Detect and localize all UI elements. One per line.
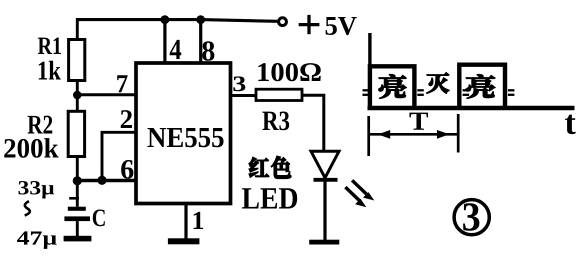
LED D1 red [311, 151, 339, 240]
wire +5V top rail [76, 20, 278, 22]
waveform voltage axis [368, 33, 371, 108]
wire pin 2 [102, 132, 136, 180]
label T [409, 113, 428, 130]
pin label 4 [170, 40, 182, 59]
label liang (lit) 1 [379, 75, 406, 99]
label LED [242, 188, 297, 208]
figure number 3 [463, 203, 479, 231]
waveform pulse 2 [459, 65, 505, 106]
label 200k [4, 138, 58, 158]
ground capacitor [64, 236, 92, 242]
dimension arrow right [437, 130, 449, 139]
label R2 [28, 116, 53, 134]
label 100 ohm [258, 63, 320, 81]
node junction pin2/pin6 [97, 176, 106, 185]
label red (se) [271, 156, 291, 178]
label mie (dark) [427, 73, 449, 94]
label 1k [39, 61, 61, 80]
resistor R2 [68, 95, 84, 181]
LED light arrow 1 [352, 180, 374, 200]
terminal +5V open circle [279, 18, 287, 26]
wire pin 7 [77, 93, 136, 96]
capacitor C electrolytic [64, 181, 90, 236]
ground LED [309, 240, 339, 245]
node pin4 on rail [161, 15, 170, 24]
node pin8 on rail [196, 15, 205, 24]
period dimension line [369, 133, 459, 136]
node junction R1/R2/pin7 [73, 91, 82, 100]
pin label 2 [121, 110, 132, 128]
label R3 [262, 111, 289, 130]
label +5V plus sign [299, 23, 320, 26]
period dimension left tick [367, 116, 370, 156]
LED light arrow 2 [345, 187, 366, 207]
label liang (lit) 2 [466, 75, 495, 99]
level dash marks [363, 90, 515, 95]
label 47u [17, 231, 57, 248]
resistor R3 [256, 89, 302, 100]
wire pin 1 [184, 204, 187, 239]
pin label 1 [194, 212, 204, 229]
label red (hong) [249, 157, 269, 177]
label 33u [18, 181, 54, 199]
period dimension right tick [457, 114, 460, 153]
waveform pulse 1 [370, 66, 415, 106]
dimension arrow left [378, 130, 390, 139]
pin label 3 [233, 76, 245, 91]
wire R3 to LED [302, 95, 324, 152]
label C [93, 209, 105, 226]
wire pin 4 [163, 20, 166, 63]
wire pin 8 [199, 20, 202, 63]
label t [565, 115, 576, 134]
label 5V [326, 17, 357, 35]
resistor R1 [69, 18, 85, 96]
label NE555 [148, 128, 224, 147]
pin label 6 [121, 160, 133, 179]
label R1 [38, 37, 61, 54]
wire pin 3 [231, 94, 257, 97]
pin label 7 [117, 75, 127, 92]
IC U1 NE555 [136, 63, 231, 204]
waveform time axis [368, 106, 575, 111]
wire pin 6 [77, 179, 136, 182]
figure number circle [454, 200, 489, 235]
label range squiggle [25, 201, 30, 215]
pin label 8 [202, 41, 214, 61]
ground pin 1 [168, 238, 200, 244]
node junction R2/C/pin6 [73, 176, 82, 185]
